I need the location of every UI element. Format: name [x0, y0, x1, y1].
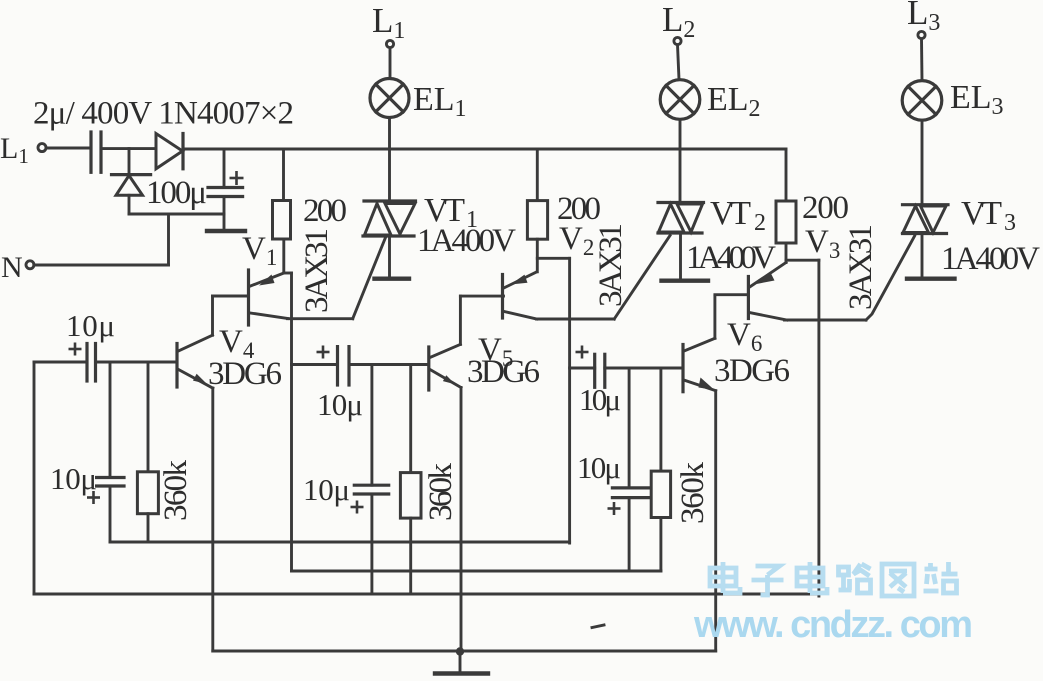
- capacitor 100u electrolytic: [223, 149, 226, 188]
- lamp EL1: [370, 79, 409, 118]
- transistor V5 3DG6 NPN: [427, 347, 430, 390]
- triac VT2: [658, 201, 704, 204]
- wire emitter jog V1: [284, 272, 292, 275]
- terminal L1 lamp1: [386, 40, 393, 47]
- capacitor 2u/400V: [89, 132, 92, 172]
- wire stage3 base line: [570, 367, 595, 370]
- svg-text:360k: 360k: [423, 463, 459, 522]
- wire V2 collector line: [537, 318, 615, 321]
- svg-text:100μ: 100μ: [146, 175, 207, 211]
- svg-text:200: 200: [802, 190, 849, 226]
- diode D1 1N4007: [156, 134, 183, 169]
- wire negative link horizontal: [129, 213, 224, 216]
- triac VT3: [903, 203, 949, 206]
- wire V4 emitter vertical: [211, 388, 214, 651]
- wire V4 collector vertical: [211, 296, 214, 335]
- terminal L1 (left input): [38, 144, 46, 152]
- terminal L3 lamp3: [918, 31, 925, 38]
- ground bar VT3: [907, 277, 955, 281]
- svg-text:10μ: 10μ: [303, 472, 350, 507]
- wire gate3 diagonal: [866, 236, 915, 320]
- wire bus stage2 vertical: [568, 258, 571, 543]
- ground bar 100u: [207, 229, 245, 233]
- wire tee stage2: [537, 257, 569, 260]
- diode D2 1N4007: [112, 173, 151, 176]
- wire bus stage1 vertical: [290, 273, 293, 571]
- plus elec3: [608, 502, 621, 515]
- capacitor 10u electrolytic (2): [370, 365, 373, 486]
- wire V5 collector vertical: [459, 296, 462, 344]
- wire V5 emitter vertical: [460, 388, 463, 652]
- wire D2 anode down: [128, 195, 131, 214]
- plus cap2: [317, 346, 330, 359]
- terminal N: [26, 261, 34, 269]
- svg-text:10μ: 10μ: [579, 382, 621, 417]
- plus cap3: [576, 346, 589, 359]
- wire bus line1: [110, 541, 570, 544]
- wire lamp1 top: [389, 48, 392, 79]
- wire lamp2 to triac: [679, 120, 682, 203]
- wire gate1 diagonal: [353, 238, 386, 319]
- capacitor 10u electrolytic (3): [628, 368, 631, 488]
- wire ground stub: [459, 651, 462, 672]
- svg-text:3AX31: 3AX31: [593, 223, 629, 307]
- svg-text:1A400V: 1A400V: [417, 223, 516, 259]
- svg-text:10μ: 10μ: [577, 450, 621, 485]
- svg-text:3AX31: 3AX31: [299, 228, 335, 313]
- svg-text:N: N: [1, 251, 23, 284]
- wire N horizontal: [34, 264, 169, 267]
- wire N riser: [167, 214, 170, 265]
- wire tee stage3: [786, 259, 819, 262]
- resistor R2 200: [536, 149, 539, 201]
- transistor V4 3DG6 NPN: [175, 344, 178, 388]
- resistor 360k (3): [659, 368, 662, 471]
- plus 100u: [230, 171, 244, 185]
- wire left feedback bus: [33, 362, 36, 594]
- terminal L2 lamp2: [674, 37, 681, 44]
- capacitor 10u coupling (1): [85, 344, 88, 382]
- capacitor 10u coupling (3): [593, 354, 596, 387]
- wire bus line4 ground rail: [213, 650, 716, 653]
- transistor V1 3AX31 PNP: [247, 270, 250, 325]
- wire V6 collector vertical: [713, 296, 716, 338]
- plus elec2: [351, 501, 364, 514]
- wire gate2 diagonal: [614, 236, 670, 320]
- watermark line1 CJK: [710, 562, 958, 596]
- triac VT1: [364, 199, 416, 202]
- svg-text:2μ/ 400V 1N4007×2: 2μ/ 400V 1N4007×2: [33, 96, 294, 132]
- wire V1 collector line: [288, 317, 353, 320]
- lamp EL3: [902, 81, 942, 121]
- wire lamp1 to triac: [388, 118, 391, 202]
- wire bus line2: [292, 570, 661, 573]
- svg-text:3DG6: 3DG6: [208, 356, 282, 392]
- wire bus stage3 vertical: [817, 260, 820, 596]
- lamp EL2: [660, 80, 700, 120]
- resistor 360k (1): [147, 362, 150, 472]
- wire top DC rail: [183, 148, 786, 151]
- svg-text:www. cndzz. com: www. cndzz. com: [693, 604, 973, 646]
- wire node to D2: [128, 149, 131, 175]
- wire stage1 base line: [34, 361, 87, 364]
- wire lamp3 to triac: [921, 120, 924, 205]
- ground bar VT2: [662, 279, 709, 283]
- transistor V6 3DG6 NPN: [681, 345, 684, 392]
- capacitor 10u electrolytic (1): [109, 362, 112, 478]
- plus cap1: [69, 343, 82, 356]
- wire lamp3 top: [920, 39, 923, 81]
- junction dot ground: [456, 647, 464, 655]
- stray dash mark: [592, 625, 604, 628]
- svg-text:10μ: 10μ: [317, 387, 363, 422]
- wire L1 to capacitor: [46, 147, 90, 150]
- svg-text:3: 3: [1004, 210, 1016, 236]
- svg-text:1A400V: 1A400V: [686, 240, 776, 276]
- wire triac3 cathode: [921, 234, 924, 277]
- wire lamp2 top: [678, 45, 680, 80]
- svg-text:3DG6: 3DG6: [467, 354, 540, 390]
- svg-text:10μ: 10μ: [50, 461, 97, 496]
- ground bar main: [435, 671, 488, 675]
- svg-text:360k: 360k: [675, 462, 711, 525]
- wire V6 emitter vertical: [714, 391, 717, 651]
- svg-text:1A400V: 1A400V: [941, 241, 1040, 277]
- resistor R3 200: [785, 149, 788, 201]
- transistor V3 3AX31 PNP: [747, 277, 750, 319]
- svg-text:3DG6: 3DG6: [714, 353, 790, 389]
- svg-text:VT: VT: [961, 195, 1002, 232]
- capacitor 10u coupling (2): [336, 347, 339, 385]
- transistor V2 3AX31 PNP: [501, 275, 504, 319]
- svg-text:360k: 360k: [158, 460, 194, 522]
- ground bar VT1: [375, 277, 410, 281]
- wire capacitor to diode: [101, 147, 156, 150]
- svg-text:3AX31: 3AX31: [843, 224, 879, 310]
- resistor R1 200: [282, 149, 285, 201]
- wire triac1 cathode: [388, 236, 391, 278]
- wire triac2 cathode: [679, 233, 682, 280]
- svg-text:200: 200: [303, 193, 347, 229]
- svg-text:10μ: 10μ: [66, 308, 115, 343]
- wire stage2 base line: [292, 363, 338, 366]
- plus elec1: [87, 491, 100, 504]
- wire V3 collector line: [785, 319, 867, 322]
- resistor 360k (2): [409, 365, 412, 473]
- svg-text:VT: VT: [710, 195, 751, 232]
- svg-text:2: 2: [754, 210, 766, 236]
- wire bus line3: [34, 593, 819, 596]
